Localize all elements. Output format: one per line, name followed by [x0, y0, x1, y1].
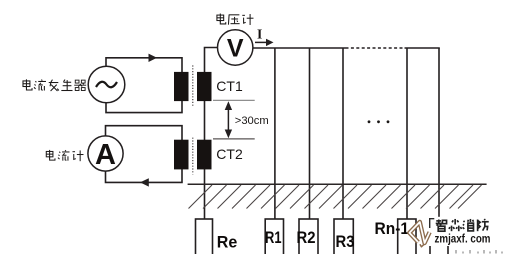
transformer CT1 core (dashed) [192, 65, 194, 107]
wire: top bus solid right segment [405, 47, 440, 49]
resistor Rn (behind watermark) [430, 219, 448, 254]
svg-text:I: I [257, 27, 262, 42]
dots between R3 and Rn-1 [368, 120, 390, 123]
ground hatching [189, 185, 482, 209]
svg-text:R3: R3 [336, 233, 355, 251]
svg-text:R1: R1 [265, 229, 282, 247]
transformer CT1 secondary winding [197, 72, 212, 101]
svg-text:R2: R2 [297, 229, 316, 247]
voltmeter V1 circle [218, 30, 253, 65]
wire: R3 drop [342, 48, 344, 219]
arrow on bottom loop (leftward) [140, 178, 149, 186]
watermark background [421, 217, 496, 246]
resistor R3 [334, 219, 353, 254]
wire: top loop of current generator [106, 58, 182, 113]
watermark bracket 「 [430, 219, 435, 228]
watermark logo (brown zigzag N) [409, 222, 429, 247]
ammeter A1 circle [88, 136, 123, 171]
label 电流计 (ammeter label) [46, 150, 83, 161]
wire: Rn-1 drop [406, 48, 408, 219]
dimension double arrow [225, 101, 232, 138]
bottom edge faint marks [456, 250, 502, 254]
label 电压计 (voltmeter label) [217, 14, 254, 25]
svg-text:CT2: CT2 [216, 146, 243, 162]
svg-text:Re: Re [217, 234, 238, 252]
wire: bottom loop of ammeter [106, 126, 183, 183]
transformer CT2 primary winding [174, 140, 189, 170]
svg-text:Rn-1: Rn-1 [375, 220, 410, 238]
transformer CT2 core (dashed) [192, 138, 194, 175]
svg-text:CT1: CT1 [216, 78, 243, 94]
wire: Rn drop [438, 48, 440, 219]
reference line upper (30cm) [213, 99, 255, 101]
resistor Rn-1 [398, 219, 416, 254]
wire: V meter left lead and main secondary vertical [205, 48, 218, 220]
arrow I (rightward) [255, 39, 274, 46]
svg-text:A: A [95, 139, 116, 171]
svg-text:>30cm: >30cm [235, 115, 269, 127]
resistor R1 [265, 219, 283, 254]
wire: top bus dashed segment [346, 47, 405, 49]
label 电流发生器 (current generator label) [23, 79, 86, 91]
ground surface line [188, 183, 487, 185]
svg-text:zmjaxf. com: zmjaxf. com [435, 232, 491, 246]
arrow on top loop (rightward) [149, 54, 158, 62]
wire: R1 drop [274, 48, 276, 219]
transformer CT1 primary winding [174, 72, 189, 101]
AC source G1 circle [88, 66, 125, 103]
reference line lower (30cm) [213, 138, 255, 140]
watermark label 智淼消防 [436, 219, 489, 231]
resistor R2 [299, 219, 318, 254]
wire: R2 drop [309, 48, 311, 219]
svg-text:V: V [227, 35, 244, 63]
transformer CT2 secondary winding [197, 140, 212, 170]
resistor Re [196, 219, 213, 254]
wire: top bus solid left segment [253, 47, 346, 49]
